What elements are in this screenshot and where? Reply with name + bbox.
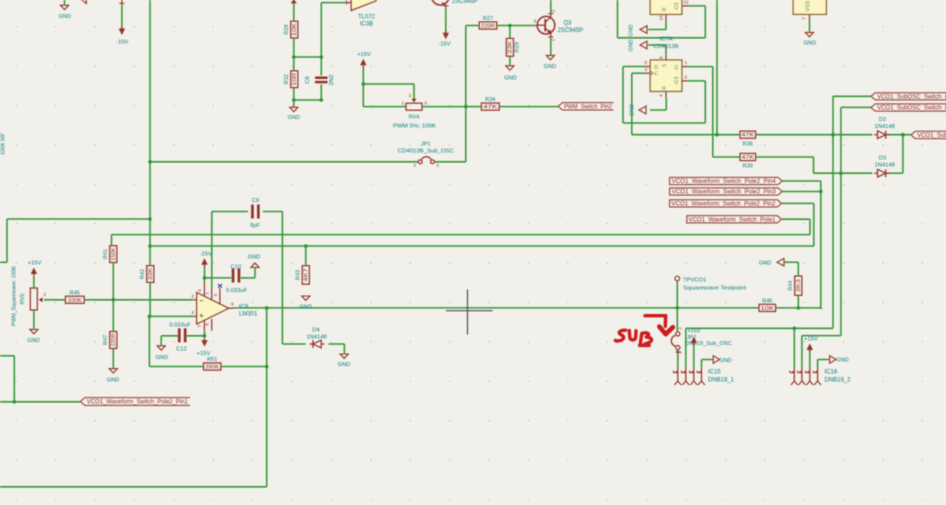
resistor R39 bbox=[740, 153, 756, 160]
wire: R34 to PWM label bbox=[499, 106, 558, 108]
svg-text:+15V: +15V bbox=[197, 351, 211, 357]
flip-flop IC7 unit A bbox=[650, 60, 682, 91]
wire: feedback right vertical bbox=[704, 6, 706, 38]
wire: -15V left drop bbox=[121, 5, 123, 29]
wire: D4 GND drop bbox=[343, 344, 345, 354]
wire: D pin5 wire bbox=[623, 66, 645, 68]
svg-text:7: 7 bbox=[802, 17, 807, 20]
svg-text:R: R bbox=[662, 86, 668, 90]
wire: feedback horizontal bbox=[618, 37, 706, 39]
wire: pin6 drop bbox=[665, 45, 667, 55]
wire: pin4 drop bbox=[665, 98, 667, 110]
wire: C9 left bbox=[212, 211, 248, 213]
ground (IC15) bbox=[713, 356, 719, 364]
wire: junction to C8 top bbox=[294, 56, 322, 58]
wire: GND to pin4 bbox=[650, 109, 666, 111]
svg-text:330K: 330K bbox=[68, 298, 83, 304]
svg-text:RV5: RV5 bbox=[20, 294, 26, 305]
net label VCO1_SubOSC_Switch_Pin (cut) bbox=[871, 93, 946, 100]
wire: to IC15 pin2 bbox=[685, 328, 687, 367]
capacitor C10 bbox=[232, 269, 235, 283]
wire: D4 to GND corner bbox=[328, 343, 344, 345]
svg-text:4: 4 bbox=[659, 94, 664, 97]
svg-text:R: R bbox=[662, 7, 668, 11]
wire: R41-R47 vertical bbox=[112, 263, 114, 332]
ground (IC7 pin4) bbox=[639, 106, 646, 114]
net label VCO1_Waveform_Switch_Pole1 bbox=[687, 216, 782, 223]
svg-text:-15V: -15V bbox=[438, 41, 450, 47]
wire: R44 bottom bbox=[797, 295, 799, 308]
resistor R34 bbox=[481, 103, 499, 110]
wire: Pin2 feed bbox=[782, 202, 814, 204]
wire: C12 left bbox=[161, 335, 178, 337]
junction (798.3,307.9) bbox=[797, 306, 801, 310]
svg-text:GND: GND bbox=[759, 261, 771, 267]
IC15 DNB19_1 pins bbox=[677, 368, 679, 382]
wire: Pin4 feed bbox=[782, 180, 821, 182]
wire: D3 out bbox=[887, 172, 903, 174]
svg-text:7: 7 bbox=[197, 324, 202, 327]
svg-text:2: 2 bbox=[685, 75, 688, 80]
svg-text:5: 5 bbox=[645, 60, 648, 65]
flip-flop IC7 unit B (top, cut) bbox=[650, 0, 682, 14]
svg-text:2: 2 bbox=[409, 93, 412, 98]
svg-text:390K: 390K bbox=[205, 365, 220, 371]
wire: to JP1 pin1 bbox=[150, 161, 418, 163]
svg-text:220R: 220R bbox=[111, 333, 117, 346]
svg-text:D3: D3 bbox=[879, 155, 886, 161]
wire: Q3 emitter to GND bbox=[550, 37, 552, 55]
wire: label2 feed bbox=[841, 106, 871, 108]
svg-text:GND: GND bbox=[248, 255, 260, 261]
no-connect X on pin 5 bbox=[218, 284, 222, 288]
wire: down to R29 bbox=[509, 26, 511, 39]
svg-text:1: 1 bbox=[414, 163, 417, 168]
svg-text:R42: R42 bbox=[140, 269, 146, 279]
svg-text:1N4148: 1N4148 bbox=[306, 335, 326, 341]
wire: GND to pin10 bbox=[648, 29, 666, 31]
diode D2 bbox=[878, 131, 886, 139]
svg-text:VSS: VSS bbox=[806, 0, 812, 11]
wire: C8 top lead bbox=[320, 57, 322, 76]
svg-text:C10: C10 bbox=[231, 264, 242, 270]
wire: to D4 bbox=[282, 343, 305, 345]
svg-text:C: C bbox=[654, 72, 658, 78]
resistor R46 bbox=[759, 304, 776, 311]
svg-text:DNB19_1: DNB19_1 bbox=[708, 378, 735, 384]
wire: label1 feed bbox=[833, 95, 871, 97]
wire: R28 top feed bbox=[293, 0, 295, 21]
wire: subosc2 vertical bbox=[840, 107, 842, 335]
junction (465.8,106.6) bbox=[464, 105, 468, 109]
power +15V (IC15) bbox=[691, 337, 697, 344]
diode D3 bbox=[878, 169, 886, 177]
svg-text:VCO1_SubOSC_Switch_Pi: VCO1_SubOSC_Switch_Pi bbox=[877, 106, 946, 112]
svg-text:+15V: +15V bbox=[804, 336, 818, 342]
svg-text:R27: R27 bbox=[483, 16, 493, 22]
svg-text:5pF: 5pF bbox=[250, 223, 260, 229]
resistor R51 bbox=[204, 363, 221, 370]
svg-text:VCO1_SubOSC_Switch_Pi: VCO1_SubOSC_Switch_Pi bbox=[877, 94, 946, 100]
resistor R36 bbox=[740, 131, 756, 138]
svg-text:GND: GND bbox=[630, 104, 636, 116]
svg-text:VCO1_Waveform_Switch_Pole1: VCO1_Waveform_Switch_Pole1 bbox=[689, 217, 777, 223]
svg-text:CD4013B: CD4013B bbox=[653, 44, 678, 50]
resistor R43 bbox=[302, 266, 309, 285]
wire: C10 GND drop bbox=[254, 268, 256, 278]
wire: left edge vertical bbox=[6, 219, 8, 262]
svg-text:IC15: IC15 bbox=[708, 369, 721, 375]
svg-text:1: 1 bbox=[685, 60, 688, 65]
svg-text:100K MF: 100K MF bbox=[1, 132, 7, 155]
svg-text:R28: R28 bbox=[284, 24, 290, 34]
ground (C10, flipped) bbox=[251, 263, 259, 267]
svg-text:R45: R45 bbox=[70, 290, 80, 296]
svg-text:IC8: IC8 bbox=[239, 304, 249, 310]
svg-text:2SC945P: 2SC945P bbox=[452, 0, 478, 5]
wire: TP to JP2 bbox=[676, 281, 678, 332]
wire: from pin12 bbox=[689, 5, 705, 7]
svg-text:3K3: 3K3 bbox=[796, 279, 802, 292]
svg-text:IC7A: IC7A bbox=[660, 37, 673, 43]
wire: R27 to Q3 base bbox=[497, 25, 537, 27]
wire: +15V to IC16 pin3 bbox=[809, 350, 811, 368]
wire: JP2 to IC15 pin1 bbox=[677, 350, 679, 367]
wire: +15V to RV4 line bbox=[362, 67, 364, 107]
svg-text:-15V: -15V bbox=[200, 251, 212, 257]
svg-text:IC3B: IC3B bbox=[360, 22, 373, 28]
wire: -15V mid drop bbox=[445, 8, 447, 33]
svg-text:1: 1 bbox=[678, 351, 683, 354]
wire: R32 to GND bbox=[293, 88, 295, 108]
wire: long line to subosc vert bbox=[686, 327, 833, 329]
resistor R47 bbox=[110, 332, 117, 349]
wire: to RV4 pin1 bbox=[363, 106, 406, 108]
wire: clock left vertical bbox=[631, 73, 633, 135]
junction (150,246) bbox=[148, 244, 152, 248]
svg-text:2SC945P: 2SC945P bbox=[558, 28, 584, 34]
svg-text:33K: 33K bbox=[148, 267, 154, 281]
svg-text:+15V: +15V bbox=[357, 52, 371, 58]
wire: R28-R32 bbox=[293, 38, 295, 71]
wire: C12 GND drop bbox=[160, 336, 162, 346]
wire: from pin1 bbox=[687, 66, 713, 68]
ground (RV5) bbox=[30, 329, 38, 333]
svg-text:10K: 10K bbox=[761, 306, 776, 312]
svg-text:R46: R46 bbox=[762, 299, 772, 305]
svg-text:PWM_Switch_Pin2: PWM_Switch_Pin2 bbox=[564, 104, 613, 110]
junction (305.8,246) bbox=[304, 244, 308, 248]
resistor R28 bbox=[291, 21, 298, 38]
wire: Pole1 feed bbox=[782, 218, 810, 220]
junction (794.3,328.3) bbox=[793, 327, 797, 331]
capacitor C12 bbox=[178, 328, 181, 342]
wire: R46 right segment bbox=[776, 307, 822, 309]
wire: wiper to R45 bbox=[44, 299, 65, 301]
svg-text:+15V: +15V bbox=[687, 329, 700, 335]
svg-text:Q: Q bbox=[674, 5, 678, 11]
junction (902.9,134.7) bbox=[901, 133, 905, 137]
wire: from pin2 bbox=[687, 80, 705, 82]
junction (293.8,100) bbox=[292, 98, 296, 102]
wire: R42 bottom to pin3 node bbox=[149, 282, 151, 316]
svg-text:R32: R32 bbox=[284, 74, 290, 84]
junction (833,134.7) bbox=[831, 133, 835, 137]
svg-text:3: 3 bbox=[424, 100, 427, 105]
junction (14.3,401.8) bbox=[13, 400, 17, 404]
wire: R41 top lead bbox=[111, 235, 113, 246]
svg-text:1: 1 bbox=[205, 292, 210, 295]
wire: pin7 to +15V node bbox=[204, 331, 206, 337]
svg-text:PWM_Squarewave: 100K: PWM_Squarewave: 100K bbox=[12, 266, 18, 326]
wire: D2 to label bbox=[887, 134, 911, 136]
wire: R43 top lead bbox=[305, 246, 307, 266]
wire: to RV4 wiper bbox=[363, 83, 414, 85]
svg-text:1: 1 bbox=[401, 100, 404, 105]
net label PWM_Switch_Pin2 bbox=[558, 103, 613, 110]
junction (509.9,25.5) bbox=[508, 24, 512, 28]
net label VCO1_Waveform_Switch_Pole2_Pin2 bbox=[670, 200, 782, 207]
svg-text:LM301: LM301 bbox=[239, 312, 258, 318]
svg-text:RV4: RV4 bbox=[409, 115, 420, 121]
ground (R43) bbox=[302, 296, 310, 300]
wire: exit left y356 bbox=[0, 355, 14, 357]
net label VCO1_Waveform_Switch_Pole2_Pin3 bbox=[670, 188, 783, 195]
junction (321.3,57) bbox=[320, 55, 324, 59]
svg-text:R29: R29 bbox=[515, 42, 521, 52]
svg-text:0.033uF: 0.033uF bbox=[169, 323, 191, 329]
svg-text:VCO1_Waveform_Switch_Pole2_Pin: VCO1_Waveform_Switch_Pole2_Pin4 bbox=[672, 179, 777, 185]
diode D4 bbox=[313, 340, 321, 348]
wire: clock pin3 wire bbox=[632, 72, 646, 74]
net label VCO1_Waveform_Switch_Pole2_Pin4 bbox=[670, 177, 783, 184]
svg-text:GND: GND bbox=[804, 40, 816, 46]
svg-text:2: 2 bbox=[436, 163, 439, 168]
svg-text:GND: GND bbox=[107, 378, 119, 384]
svg-text:TPVCO1: TPVCO1 bbox=[683, 277, 706, 283]
net label VCO1_Waveform_Switch_Pole2_Pin1 bbox=[81, 398, 191, 406]
svg-text:R51: R51 bbox=[207, 357, 217, 363]
svg-text:2: 2 bbox=[551, 9, 556, 12]
wire: vertical R27/R34 column bbox=[465, 26, 467, 162]
wire: D feedback left vertical bbox=[622, 67, 624, 124]
wire: to TL072 input bbox=[321, 2, 345, 4]
junction (150,161.8) bbox=[148, 160, 152, 164]
svg-text:GND: GND bbox=[59, 14, 71, 20]
resistor R29 bbox=[506, 38, 513, 56]
svg-text:+15V: +15V bbox=[28, 261, 42, 267]
svg-text:2: 2 bbox=[677, 327, 682, 330]
wire: Pin2 vertical bbox=[813, 203, 815, 246]
svg-text:R41: R41 bbox=[103, 249, 109, 259]
power +15V (RV4) bbox=[360, 59, 366, 66]
svg-text:JP1: JP1 bbox=[421, 142, 431, 148]
svg-text:VCO1_Waveform_Switch_Pole2_Pin: VCO1_Waveform_Switch_Pole2_Pin1 bbox=[87, 400, 189, 406]
svg-text:GND: GND bbox=[338, 362, 350, 368]
junction (717,134.7) bbox=[715, 133, 719, 137]
svg-text:220R: 220R bbox=[481, 24, 495, 30]
wire: Pole1 vertical bbox=[809, 219, 811, 234]
ground (top left) bbox=[60, 5, 68, 9]
wire: to GND bbox=[702, 359, 712, 361]
svg-text:GND: GND bbox=[300, 305, 312, 311]
svg-text:150K: 150K bbox=[111, 247, 117, 261]
svg-text:CD4013B_Sub_OSC: CD4013B_Sub_OSC bbox=[398, 149, 454, 155]
wire: subosc1 vertical bbox=[832, 96, 834, 328]
wire: exit left bbox=[0, 261, 7, 263]
svg-text:VCO1_Waveform_Switch_Pole2_Pin: VCO1_Waveform_Switch_Pole2_Pin2 bbox=[671, 202, 776, 208]
wire: subosc2 bottom corner bbox=[802, 335, 841, 337]
wire: GND to pin6 bbox=[648, 44, 666, 46]
ground (D4) bbox=[340, 354, 348, 358]
VSS power unit box bbox=[793, 0, 826, 14]
resistor R41 bbox=[110, 246, 117, 263]
junction (113.3,299.8) bbox=[112, 298, 116, 302]
wire: to Pole2_Pin1 label bbox=[0, 401, 81, 403]
ground (R32) bbox=[290, 107, 298, 111]
wire: to R34 bbox=[466, 106, 482, 108]
junction (677.3,307.9) bbox=[676, 306, 680, 310]
wire: R45 to IC8 pin2 bbox=[84, 299, 193, 301]
power -15V (left) bbox=[119, 29, 125, 36]
svg-text:3: 3 bbox=[191, 310, 194, 315]
svg-text:GND: GND bbox=[719, 358, 731, 364]
svg-text:10: 10 bbox=[659, 15, 664, 21]
wire: stub bbox=[821, 308, 823, 309]
svg-text:IC16: IC16 bbox=[825, 369, 838, 375]
wire: to IC8 pin1 bbox=[211, 212, 213, 289]
svg-text:S: S bbox=[662, 63, 668, 67]
svg-text:GND: GND bbox=[629, 39, 635, 51]
wire: bottom long wire bbox=[0, 486, 267, 488]
svg-text:47K: 47K bbox=[483, 105, 498, 111]
wire: RV5 to GND bbox=[33, 310, 35, 329]
junction (293.8,57) bbox=[292, 55, 296, 59]
red annotation SUB letters bbox=[615, 330, 625, 341]
svg-text:8: 8 bbox=[205, 323, 210, 326]
junction (820.8,191.5) bbox=[819, 190, 823, 194]
wire: to R51 bbox=[149, 366, 203, 368]
svg-text:3: 3 bbox=[534, 19, 537, 24]
junction (204.5,335.8) bbox=[203, 334, 207, 338]
wire: R36 to D2 bbox=[756, 134, 873, 136]
potentiometer RV4 bbox=[406, 103, 422, 110]
ground (IC16) bbox=[830, 356, 836, 364]
wire: C8 column up bbox=[320, 3, 322, 57]
ground (IC7 pin6) bbox=[640, 41, 647, 49]
transistor Q2 (cut off at top edge) bbox=[432, 0, 450, 5]
power +15V (RV5) bbox=[31, 268, 37, 275]
resistor R32 bbox=[291, 71, 298, 88]
wire: long line to R41 bbox=[112, 234, 811, 236]
potentiometer RV5 bbox=[30, 288, 37, 310]
wire: C9 to D4 vertical bbox=[281, 212, 283, 345]
wire: to IC8 pin3 bbox=[149, 315, 193, 317]
wire: to R27 bbox=[466, 25, 479, 27]
svg-text:TL072: TL072 bbox=[358, 14, 376, 20]
svg-text:GND: GND bbox=[504, 76, 516, 82]
power -15V (mid, Q2 emitter) bbox=[443, 33, 449, 40]
ground (R29) bbox=[506, 66, 514, 70]
wire: IC7 unitB D feedback left bbox=[617, 0, 619, 38]
wire: IC8 output long line bbox=[236, 307, 759, 309]
wire: JP1 pin2 to vertical bbox=[434, 161, 465, 163]
net label VCO1_SubOSC_Switch_Pin (cut) bbox=[871, 104, 946, 111]
svg-text:D: D bbox=[654, 65, 658, 71]
junction (204.5,277.9) bbox=[203, 276, 207, 280]
wire: IC16 pin4 gnd drop bbox=[817, 360, 819, 368]
svg-text:47K: 47K bbox=[742, 155, 756, 161]
svg-text:0.033uF: 0.033uF bbox=[226, 288, 248, 294]
power +15V (IC16) bbox=[807, 344, 813, 351]
power feed arrow (R28 top, cut) bbox=[291, 0, 297, 3]
wire: Pin3 feed bbox=[782, 191, 821, 193]
svg-text:C8: C8 bbox=[305, 76, 311, 83]
svg-text:Q: Q bbox=[674, 65, 678, 71]
op-amp U TL072 IC3B (cut at top) bbox=[351, 0, 376, 10]
junction (363.3,84) bbox=[362, 82, 366, 86]
junction (840.9,173.2) bbox=[839, 171, 843, 175]
wire: RV4 pin3 to column bbox=[422, 106, 466, 108]
svg-text:PWM 5%; 100K: PWM 5%; 100K bbox=[393, 124, 436, 130]
svg-text:GND: GND bbox=[288, 115, 300, 121]
wire: -15V to pin4 node bbox=[204, 266, 206, 281]
svg-text:Q: Q bbox=[674, 79, 678, 85]
junction (321.3,100) bbox=[320, 98, 324, 102]
wire: +15V to RV5 bbox=[33, 277, 35, 289]
wire: left vertical rail to R42 bbox=[149, 0, 151, 266]
resistor R27 bbox=[479, 22, 497, 29]
wire: +15V to IC15 pin3 bbox=[693, 343, 695, 368]
wire: diode OR join bbox=[902, 135, 904, 174]
cursor crosshair bbox=[467, 289, 469, 334]
op-amp IC8 LM301 bbox=[197, 293, 229, 324]
power -15V (IC8 pin4) bbox=[201, 258, 207, 265]
svg-text:GND: GND bbox=[27, 338, 39, 344]
svg-text:Q3: Q3 bbox=[564, 21, 573, 27]
resistor R42 bbox=[147, 266, 154, 283]
svg-text:GND: GND bbox=[156, 355, 168, 361]
wire: pin10 drop bbox=[665, 20, 667, 30]
wire: junction to C8 bottom bbox=[294, 99, 322, 101]
ground (Q3 emitter) bbox=[546, 55, 554, 59]
wire: upper-left horizontal bbox=[7, 218, 150, 220]
svg-text:2N2: 2N2 bbox=[329, 75, 335, 86]
svg-text:D4: D4 bbox=[312, 328, 320, 334]
testpoint TPVCO1 bbox=[675, 276, 680, 281]
ground (R44) bbox=[777, 258, 784, 266]
svg-text:-15V: -15V bbox=[116, 40, 128, 46]
ground (VSS) bbox=[805, 32, 813, 36]
svg-text:D2: D2 bbox=[879, 117, 886, 123]
svg-text:DNB19_2: DNB19_2 bbox=[825, 378, 852, 384]
wire: VSS pin7 to GND bbox=[809, 21, 811, 32]
wire: to R39 bbox=[713, 156, 740, 158]
svg-text:4: 4 bbox=[197, 289, 202, 292]
wire: R39 out bbox=[756, 156, 814, 158]
IC16 DNB19_2 pins bbox=[793, 368, 795, 382]
capacitor C9 bbox=[251, 205, 254, 219]
capacitor C8 bbox=[315, 77, 327, 80]
resistor R44 bbox=[795, 276, 802, 295]
ground (IC7 pin10) bbox=[640, 26, 647, 34]
wire: R29 to GND bbox=[509, 56, 511, 66]
wire: output down-left vertical bbox=[266, 308, 268, 487]
junction (150,219) bbox=[148, 217, 152, 221]
svg-text:GND: GND bbox=[836, 358, 848, 364]
wire: top net vertical bbox=[716, 0, 718, 135]
svg-text:1N4148: 1N4148 bbox=[875, 163, 895, 169]
